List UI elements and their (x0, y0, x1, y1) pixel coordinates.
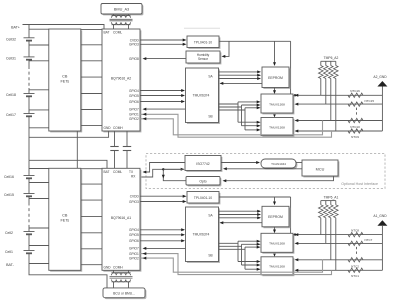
wire (28, 234, 30, 250)
resistor NTC8 (348, 232, 363, 236)
svg-text:TMUX6374: TMUX6374 (193, 233, 210, 237)
capacitor daisy-chain coupling C2 (126, 131, 128, 147)
svg-text:FETs: FETs (60, 80, 69, 84)
svg-text:GPIO5: GPIO5 (129, 94, 139, 98)
resistor NTC7 (348, 241, 363, 245)
svg-text:GPIO4: GPIO4 (129, 89, 139, 93)
svg-text:A2_GND: A2_GND (373, 75, 387, 79)
wire (28, 178, 30, 193)
wire GPIO2 direct NTC sense A1 (gray) (140, 258, 323, 272)
wire faint shadow line (184, 27, 220, 29)
svg-text:BAT-: BAT- (6, 263, 15, 267)
svg-text:GPIO3: GPIO3 (129, 200, 139, 204)
wire BAT+ rail to IC A2 BAT pin (23, 25, 105, 30)
svg-text:BCU or BMU...: BCU or BMU... (113, 292, 135, 296)
svg-text:TMUX1308: TMUX1308 (269, 265, 285, 269)
wire humidity sensor to GPIO8 (144, 58, 186, 60)
wire NTC sense row 1 to TMUX1308 #1 (296, 94, 382, 96)
battery cell CELL1 (24, 250, 35, 252)
wire MCU to Opto (225, 176, 334, 181)
svg-text:TMUX1308: TMUX1308 (269, 242, 285, 246)
svg-text:FETs: FETs (60, 219, 69, 223)
wire GPIO1 direct NTC sense (gray) (140, 114, 332, 137)
resistor NTC16 (348, 93, 363, 97)
wire stack bottom to BCU (29, 253, 107, 288)
box CB FETs A1 (cell balancing) (49, 168, 82, 271)
svg-text:TMP6_A1: TMP6_A1 (324, 195, 339, 199)
svg-text:BAT+: BAT+ (11, 26, 20, 30)
wire TMUX1308 #3 to #4 supply (274, 252, 276, 255)
svg-text:GPIO6: GPIO6 (129, 239, 139, 243)
wire mux select bus from TMUX6374 SB to TMUX1308s A1 (219, 242, 239, 244)
wire with ellipsis (cells omitted) (28, 60, 30, 66)
battery cell CELL17 (24, 113, 35, 115)
svg-text:BAT: BAT (104, 31, 110, 35)
wire TMUX6374 SA to EEPROM (3 lines) (219, 71, 261, 73)
wire GPIO2 direct NTC sense (gray) (140, 119, 323, 135)
wire NTC sense row 3 to TMUX1308 #4 (296, 259, 382, 261)
wire Opto output to A1 TX node (163, 169, 186, 180)
wire EEPROM to TMUX1308 #3 supply (274, 227, 276, 232)
wire ISO7742 to level shifter (221, 162, 259, 164)
box TMUX1308 #1 (A2 NTC mux) (261, 94, 294, 114)
resistor NTC15 (348, 102, 363, 106)
svg-text:NTC15: NTC15 (365, 99, 375, 103)
wire TMUX6374 output to GPIO7 A1 (144, 247, 186, 249)
transformer T2 (daisy-chain coupling to BMU_A3) (113, 14, 115, 15)
svg-text:Optional Host Interface: Optional Host Interface (341, 182, 378, 186)
wire NTC sense row 2 to TMUX1308 #3 (296, 242, 382, 244)
wire GPIO6 to TMUX6374 A1 (140, 240, 184, 242)
svg-text:COML: COML (113, 170, 122, 174)
dashed box optional host interface (146, 154, 385, 189)
svg-text:Cell18: Cell18 (6, 93, 16, 97)
svg-text:COML: COML (113, 31, 122, 35)
capacitor daisy-chain coupling C1 (114, 131, 116, 147)
capacitor EEPROM block A1 (262, 206, 290, 228)
resistor NTC2 (348, 258, 363, 262)
wire GPIO3 to TPL0401-10 (140, 43, 185, 45)
svg-text:CB: CB (62, 75, 68, 79)
svg-text:GND: GND (104, 265, 112, 269)
resistor NTC9 (348, 129, 363, 133)
box BCU or BMU_A0 (103, 288, 146, 299)
battery cell CELL32 (24, 37, 35, 39)
resistor NTC10 (348, 118, 363, 122)
svg-text:Cell31: Cell31 (6, 56, 16, 60)
wire with ellipsis (cells omitted) (28, 196, 30, 202)
op-amp U mux TMUX6374 (A2) (186, 68, 220, 124)
wire stack to A1 BAT pin (29, 160, 107, 168)
ellipsis between NTC rows (356, 108, 358, 117)
svg-text:Cell32: Cell32 (6, 37, 16, 41)
battery cell CELL16 (24, 175, 35, 177)
battery cell CELL2 (24, 231, 35, 233)
resistor NTC1 (348, 268, 363, 272)
svg-text:CVDD: CVDD (130, 195, 140, 199)
svg-text:NTC8: NTC8 (351, 229, 359, 233)
wire TPL supply rail to EEPROM A1 (219, 196, 291, 198)
transformer T1 (daisy-chain coupling to BCU) (113, 270, 115, 272)
capacitor EEPROM block A2 (262, 67, 290, 89)
wire TPL supply rail to EEPROM and mux chain (219, 40, 291, 42)
svg-text:Cell1: Cell1 (5, 250, 13, 254)
wire CB outputs to IC A2 cell-sense pins (81, 28, 102, 30)
wire stack continues to lower half (28, 116, 30, 160)
svg-text:Cell15: Cell15 (4, 193, 14, 197)
wire ISO7742 to A1 RX (144, 163, 185, 173)
svg-text:NTC16: NTC16 (350, 89, 360, 93)
wire NTC sense row 4 to TMUX1308 #2 (296, 130, 382, 132)
box TMUX1308 #3 (A1 NTC mux) (261, 233, 294, 253)
box Opto isolator (186, 177, 221, 187)
svg-text:GPIO1: GPIO1 (129, 113, 139, 117)
wire GPIO4 to TMUX6374 A1 (140, 229, 184, 231)
svg-text:GPIO6: GPIO6 (129, 100, 139, 104)
svg-text:BQ79616_A1: BQ79616_A1 (111, 216, 131, 220)
battery cell CELL18 (24, 93, 35, 95)
wire EEPROM to TMUX6374 return A1 (221, 222, 263, 224)
wire TMUX6374 output to GPIO7 (144, 108, 186, 110)
wire (28, 160, 30, 175)
svg-text:Cell2: Cell2 (5, 231, 13, 235)
wire cell taps to CB FETs block A2 (29, 28, 49, 30)
svg-text:ISO7742: ISO7742 (196, 162, 209, 166)
svg-text:GPIO5: GPIO5 (129, 233, 139, 237)
svg-text:GPIO7: GPIO7 (129, 107, 139, 111)
wire cell taps to CB FETs block A1 (29, 168, 49, 170)
svg-text:A1_GND: A1_GND (373, 214, 387, 218)
svg-text:CB: CB (62, 214, 68, 218)
svg-text:TMUX1308: TMUX1308 (269, 125, 285, 129)
wire mux select bus from TMUX6374 SB to TMUX1308s (219, 103, 239, 105)
svg-text:NTC9: NTC9 (351, 135, 359, 139)
wire GPIO6 to TMUX6374 (140, 101, 184, 103)
box TMUX1308 #2 (A2 NTC mux) (261, 118, 294, 137)
op-amp U_A1 battery monitor BQ79616_A1 (102, 168, 141, 271)
box isolator ISO7742 (185, 156, 222, 172)
wire NTC sense row 4 to TMUX1308 #4 (296, 269, 382, 271)
svg-text:TMUX1308: TMUX1308 (269, 102, 285, 106)
wire GPIO5 to TMUX6374 A1 (140, 234, 184, 236)
wire GPIO4 to TMUX6374 (140, 90, 184, 92)
svg-text:Sensor: Sensor (198, 57, 209, 61)
box CB FETs A2 (cell balancing) (49, 29, 82, 132)
op-amp U mux TMUX6374 (A1) (186, 207, 220, 263)
svg-text:TCAN1044: TCAN1044 (271, 162, 286, 166)
svg-text:BQ79616_A2: BQ79616_A2 (111, 77, 131, 81)
wire MCU to ISO7742 return (225, 168, 303, 170)
ellipsis between NTC rows A1 (356, 247, 358, 256)
box TMUX1308 #4 (A1 NTC mux) (261, 257, 294, 276)
svg-text:MCU: MCU (316, 167, 325, 171)
wire TMUX6374 SA to EEPROM A1 (3 lines) (219, 210, 261, 212)
svg-text:BMU_A3: BMU_A3 (114, 8, 129, 12)
wire EEPROM to TMUX1308 #1 supply (274, 88, 276, 93)
svg-text:TPL0401-10: TPL0401-10 (194, 41, 212, 45)
svg-text:GPIO7: GPIO7 (129, 247, 139, 251)
wire A2 GND to stack mid (29, 131, 109, 137)
svg-text:NTC10: NTC10 (350, 125, 360, 129)
svg-text:GPIO8: GPIO8 (129, 57, 139, 61)
box BMU_A3 (next stacked monitor) (101, 4, 143, 16)
wire (28, 96, 30, 113)
wire CVDD to TPL0401-10 (140, 39, 185, 41)
svg-text:Cell16: Cell16 (4, 175, 14, 179)
wire NTC sense row 2 to TMUX1308 #1 (296, 103, 382, 105)
box TPL0401-10 digital pot (A2) (187, 36, 220, 49)
svg-text:GPIO4: GPIO4 (129, 228, 139, 232)
op-amp U_A2 battery monitor BQ79616_A2 (102, 29, 141, 132)
svg-text:NTC7: NTC7 (365, 238, 373, 242)
svg-text:GPIO1: GPIO1 (129, 252, 139, 256)
wire NTC sense row 1 to TMUX1308 #3 (296, 234, 382, 236)
wire CB chain link between halves (76, 131, 78, 168)
wire TMUX1308 #1 to #2 supply (274, 113, 276, 116)
svg-text:EEPROM: EEPROM (268, 76, 283, 80)
svg-text:NTC1: NTC1 (351, 274, 359, 278)
svg-text:SB: SB (208, 254, 212, 258)
wire NTC sense row 3 to TMUX1308 #2 (296, 120, 382, 122)
svg-text:Opto: Opto (199, 180, 206, 184)
svg-text:GND: GND (104, 126, 112, 130)
wire transceiver to MCU (296, 162, 302, 164)
svg-text:EEPROM: EEPROM (268, 215, 283, 219)
svg-text:TPL0401-10: TPL0401-10 (194, 196, 212, 200)
svg-text:Cell17: Cell17 (6, 113, 16, 117)
svg-text:NTC2: NTC2 (351, 264, 359, 268)
svg-text:GPIO3: GPIO3 (129, 43, 139, 47)
svg-text:TMUX6374: TMUX6374 (193, 94, 210, 98)
wire CB outputs to IC A1 cell-sense pins (81, 168, 102, 170)
svg-text:SB: SB (208, 115, 212, 119)
wire A1 TX to ISO7742 (140, 169, 184, 177)
wire CVDD to TPL0401-10 (140, 195, 185, 197)
wire EEPROM to TMUX6374 return (221, 82, 263, 84)
box humidity sensor (A2) (186, 51, 221, 64)
battery cell CELL31 (24, 56, 35, 58)
battery cell CELL15 (24, 193, 35, 195)
svg-text:GPIO2: GPIO2 (129, 256, 139, 260)
box MCU (302, 160, 339, 177)
box transceiver TCAN1044 (261, 159, 297, 169)
box TPL0401-10 digital pot (A1) (187, 192, 220, 205)
svg-text:TMP6_A2: TMP6_A2 (324, 56, 339, 60)
wire (28, 41, 30, 57)
wire GPIO1 direct NTC sense A1 (gray) (140, 254, 332, 275)
svg-text:COMH: COMH (113, 265, 123, 269)
svg-text:BAT: BAT (104, 170, 110, 174)
svg-text:COMH: COMH (113, 126, 123, 130)
svg-text:GPIO2: GPIO2 (129, 117, 139, 121)
wire GPIO3 to TPL0401-10 (140, 201, 185, 203)
wire GPIO5 to TMUX6374 (140, 95, 184, 97)
